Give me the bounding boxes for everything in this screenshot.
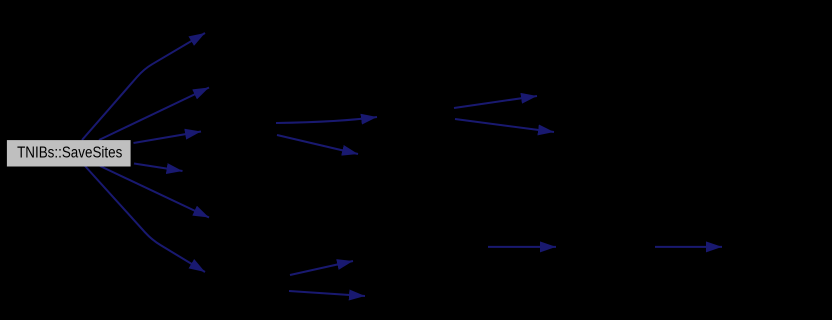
- edge node14 to node15: [655, 246, 722, 248]
- edge SaveSites to node6 (bottom): [85, 166, 205, 272]
- edge SaveSites to node2: [99, 88, 209, 141]
- edge node5 to node12: [289, 291, 365, 296]
- edge node7 to node10: [455, 119, 554, 132]
- edge SaveSites to node5: [100, 166, 209, 218]
- edge node13 to node14: [488, 246, 556, 248]
- node TNIBs::SaveSites: [7, 140, 131, 166]
- edge SaveSites to node1 (top): [82, 33, 205, 140]
- edge node3 to node7: [276, 117, 377, 123]
- edge node5 to node11: [290, 261, 353, 275]
- edge node7 to node9: [454, 96, 537, 108]
- svg-text:TNIBs::SaveSites: TNIBs::SaveSites: [17, 145, 122, 162]
- edge node3 to node8: [277, 135, 358, 154]
- edge SaveSites to node3: [134, 132, 202, 144]
- edge SaveSites to node4: [134, 164, 183, 172]
